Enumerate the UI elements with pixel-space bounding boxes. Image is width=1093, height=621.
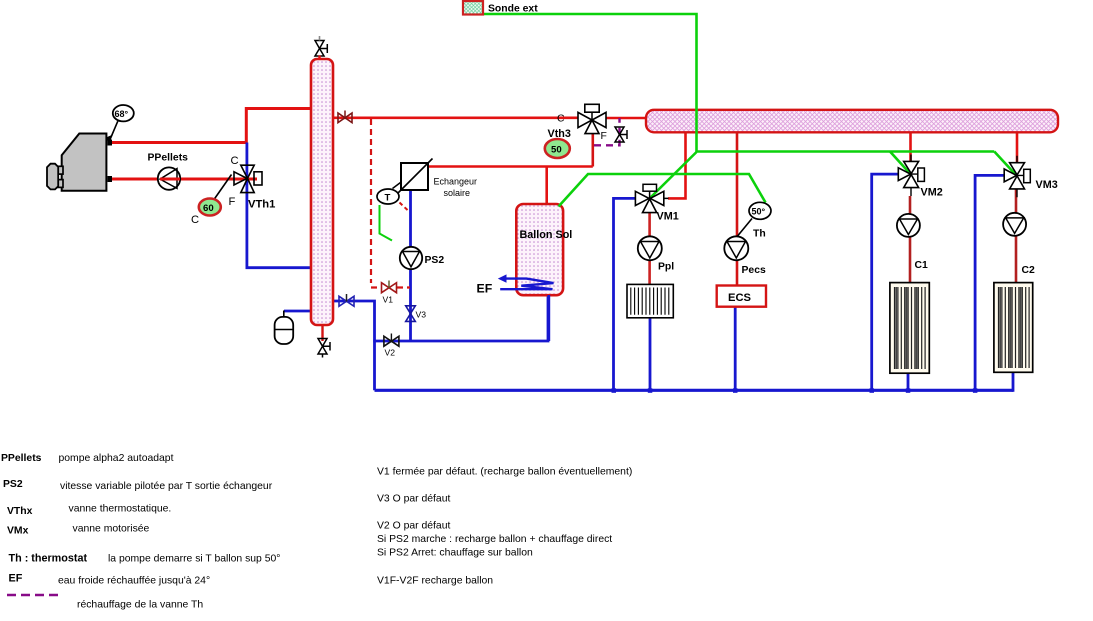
- svg-text:C1: C1: [915, 260, 929, 271]
- valve H purge Vth3: [615, 127, 627, 142]
- wire tank bottom blue drain line: [334, 301, 375, 390]
- wire VTh1 blue riser and return to tank: [247, 143, 311, 268]
- valve V1: [382, 281, 397, 305]
- svg-text:VMx: VMx: [7, 526, 29, 537]
- valve V2: [384, 334, 399, 358]
- svg-text:EF: EF: [9, 573, 23, 585]
- wire tank top to Vth3: [333, 117, 578, 120]
- valve VM1: [635, 184, 678, 222]
- legend PS2: [3, 479, 273, 492]
- wire VM3 to C2 radiator: [1015, 189, 1018, 283]
- svg-text:50: 50: [551, 145, 562, 156]
- svg-text:ECS: ECS: [728, 292, 752, 304]
- svg-text:VM3: VM3: [1036, 179, 1058, 191]
- wire boiler top supply: [110, 109, 311, 143]
- wire VM1 riser from bar: [668, 131, 686, 198]
- wire green Ballon Sol sensor to Th: [559, 174, 766, 207]
- svg-text:C: C: [557, 114, 565, 125]
- svg-text:vanne thermostatique.: vanne thermostatique.: [69, 504, 172, 515]
- sensor 60: [191, 175, 232, 227]
- svg-text:EF: EF: [477, 282, 493, 296]
- svg-text:68°: 68°: [115, 109, 129, 119]
- valve tank top vent: [315, 36, 327, 60]
- radiator C1: [890, 283, 929, 374]
- svg-text:solaire: solaire: [444, 188, 471, 198]
- wire green branch to VM3: [994, 152, 1015, 175]
- svg-text:la pompe demarre si T ballon s: la pompe demarre si T ballon sup 50°: [108, 554, 280, 565]
- wire purple Th reheat dashed: [594, 118, 620, 145]
- svg-text:Ppl: Ppl: [658, 262, 674, 273]
- wire VM3 blue return: [975, 175, 1004, 390]
- svg-text:V1F-V2F recharge ballon: V1F-V2F recharge ballon: [377, 576, 493, 587]
- valve tank supply shutoff: [338, 111, 352, 123]
- valve tank bottom drain: [318, 325, 330, 358]
- wire C2 radiator return: [1012, 372, 1015, 392]
- wire VM3 riser: [1016, 131, 1019, 163]
- svg-text:Ballon Sol: Ballon Sol: [520, 229, 573, 241]
- heat exchanger solaire: [397, 159, 478, 199]
- svg-text:VM1: VM1: [657, 211, 679, 223]
- svg-text:Echangeur: Echangeur: [434, 177, 478, 187]
- svg-text:VThx: VThx: [7, 506, 33, 517]
- wire C1 radiator return: [907, 373, 910, 390]
- radiator C2: [994, 283, 1033, 373]
- wire VM2 blue return: [872, 174, 899, 390]
- wire VM1 to Ppl radiator: [648, 213, 651, 285]
- svg-text:V1 fermée par défaut. (recharg: V1 fermée par défaut. (recharge ballon é…: [377, 467, 632, 478]
- wire VM2 riser: [909, 131, 912, 162]
- Ballon Sol tank: [516, 204, 572, 295]
- ECS box: [717, 286, 766, 307]
- svg-text:Th : thermostat: Th : thermostat: [9, 553, 88, 565]
- boiler PPellets: [47, 134, 112, 191]
- pump PPellets: [148, 153, 189, 190]
- valve VM3: [1004, 156, 1058, 198]
- svg-text:PS2: PS2: [3, 479, 23, 490]
- svg-text:réchauffage de la vanne Th: réchauffage de la vanne Th: [77, 600, 203, 611]
- wire ECS return: [734, 307, 737, 391]
- svg-text:V3: V3: [416, 310, 427, 320]
- wire dashed V1 recharge line: [371, 119, 410, 288]
- svg-text:PPellets: PPellets: [1, 453, 42, 464]
- svg-text:T: T: [385, 193, 391, 204]
- svg-text:pompe alpha2 autoadapt: pompe alpha2 autoadapt: [59, 453, 174, 464]
- pump Pecs: [724, 236, 766, 276]
- wire green branch to VM1: [651, 152, 697, 198]
- pump C2: [1003, 213, 1035, 276]
- valve Vth3: [548, 104, 607, 142]
- svg-text:vitesse variable pilotée par T: vitesse variable pilotée par T sortie éc…: [60, 481, 273, 492]
- wire Pecs riser: [736, 131, 739, 286]
- svg-text:VTh1: VTh1: [248, 199, 275, 211]
- valve VM2: [898, 155, 942, 199]
- legend VThx: [7, 504, 171, 518]
- pump C1: [897, 214, 928, 271]
- legend EF: [9, 573, 211, 587]
- pump PS2: [400, 247, 445, 269]
- collector bar: [646, 110, 1058, 133]
- wire main bottom return: [375, 389, 1014, 392]
- wire PS2 suction line: [409, 189, 412, 341]
- node sonde ext green wire: [483, 14, 697, 152]
- EF cold water coil: [477, 274, 554, 295]
- wire expansion vessel to tank: [284, 310, 313, 313]
- svg-text:F: F: [601, 131, 607, 142]
- svg-text:Si PS2 marche : recharge ballo: Si PS2 marche : recharge ballon + chauff…: [377, 534, 612, 545]
- svg-text:PS2: PS2: [425, 255, 445, 266]
- legend VMx: [7, 524, 150, 537]
- node junction dots: [612, 388, 978, 393]
- svg-text:C2: C2: [1022, 265, 1036, 276]
- wire bottom transfer line V2 to Ballon Sol: [373, 294, 548, 341]
- svg-text:50°: 50°: [752, 207, 766, 217]
- svg-text:C: C: [231, 155, 239, 167]
- wire VM1 blue return: [614, 198, 636, 390]
- svg-text:Th: Th: [753, 229, 766, 240]
- svg-text:Pecs: Pecs: [742, 265, 766, 276]
- wire Vth3 to collector bar: [606, 117, 648, 120]
- svg-text:Si PS2 Arret: chauffage sur ba: Si PS2 Arret: chauffage sur ballon: [377, 548, 533, 559]
- wire Ppl radiator return: [649, 318, 652, 391]
- svg-text:PPellets: PPellets: [148, 153, 189, 164]
- pump Ppl: [638, 236, 674, 272]
- svg-text:vanne motorisée: vanne motorisée: [73, 524, 150, 535]
- svg-text:eau froide réchauffée jusqu'à: eau froide réchauffée jusqu'à 24°: [58, 576, 210, 587]
- svg-text:V2 O par défaut: V2 O par défaut: [377, 521, 450, 532]
- wire exchanger to Vth3 leg: [428, 165, 593, 168]
- svg-text:C: C: [191, 214, 199, 226]
- valve V3: [406, 306, 427, 322]
- legend Th thermostat: [9, 553, 281, 565]
- legend sonde ext: [463, 1, 538, 15]
- valve tank blue shutoff: [339, 294, 354, 306]
- svg-text:Sonde ext: Sonde ext: [488, 4, 538, 15]
- legend PPellets: [1, 453, 174, 464]
- sensor 68: [106, 105, 134, 144]
- buffer tank: [311, 59, 333, 325]
- svg-text:VM2: VM2: [921, 187, 943, 199]
- radiator Ppl: [627, 284, 673, 317]
- wire green control bus to VM2 VM3: [697, 150, 995, 153]
- svg-text:V2: V2: [385, 348, 396, 358]
- svg-text:60: 60: [203, 203, 214, 214]
- wire green branch to VM2: [890, 152, 910, 174]
- sensor 50: [545, 139, 570, 158]
- svg-text:F: F: [229, 196, 236, 208]
- wire Ballon Sol top feed: [545, 167, 548, 207]
- valve VTh1: [229, 155, 276, 211]
- svg-text:V1: V1: [383, 295, 394, 305]
- note V2: [377, 521, 612, 559]
- svg-text:V3 O par défaut: V3 O par défaut: [377, 494, 450, 505]
- legend purple dashed: [7, 595, 203, 611]
- sensor Th 50: [736, 202, 772, 239]
- wire green T sensor to PS2: [380, 205, 393, 241]
- wire boiler bottom return: [110, 178, 257, 181]
- sensor T exchanger: [377, 183, 408, 211]
- wire Ballon Sol bottom return: [547, 295, 550, 341]
- wire VM2 to C1 radiator: [909, 196, 912, 283]
- wire Vth3 F port down: [591, 134, 594, 167]
- expansion vessel: [275, 311, 294, 345]
